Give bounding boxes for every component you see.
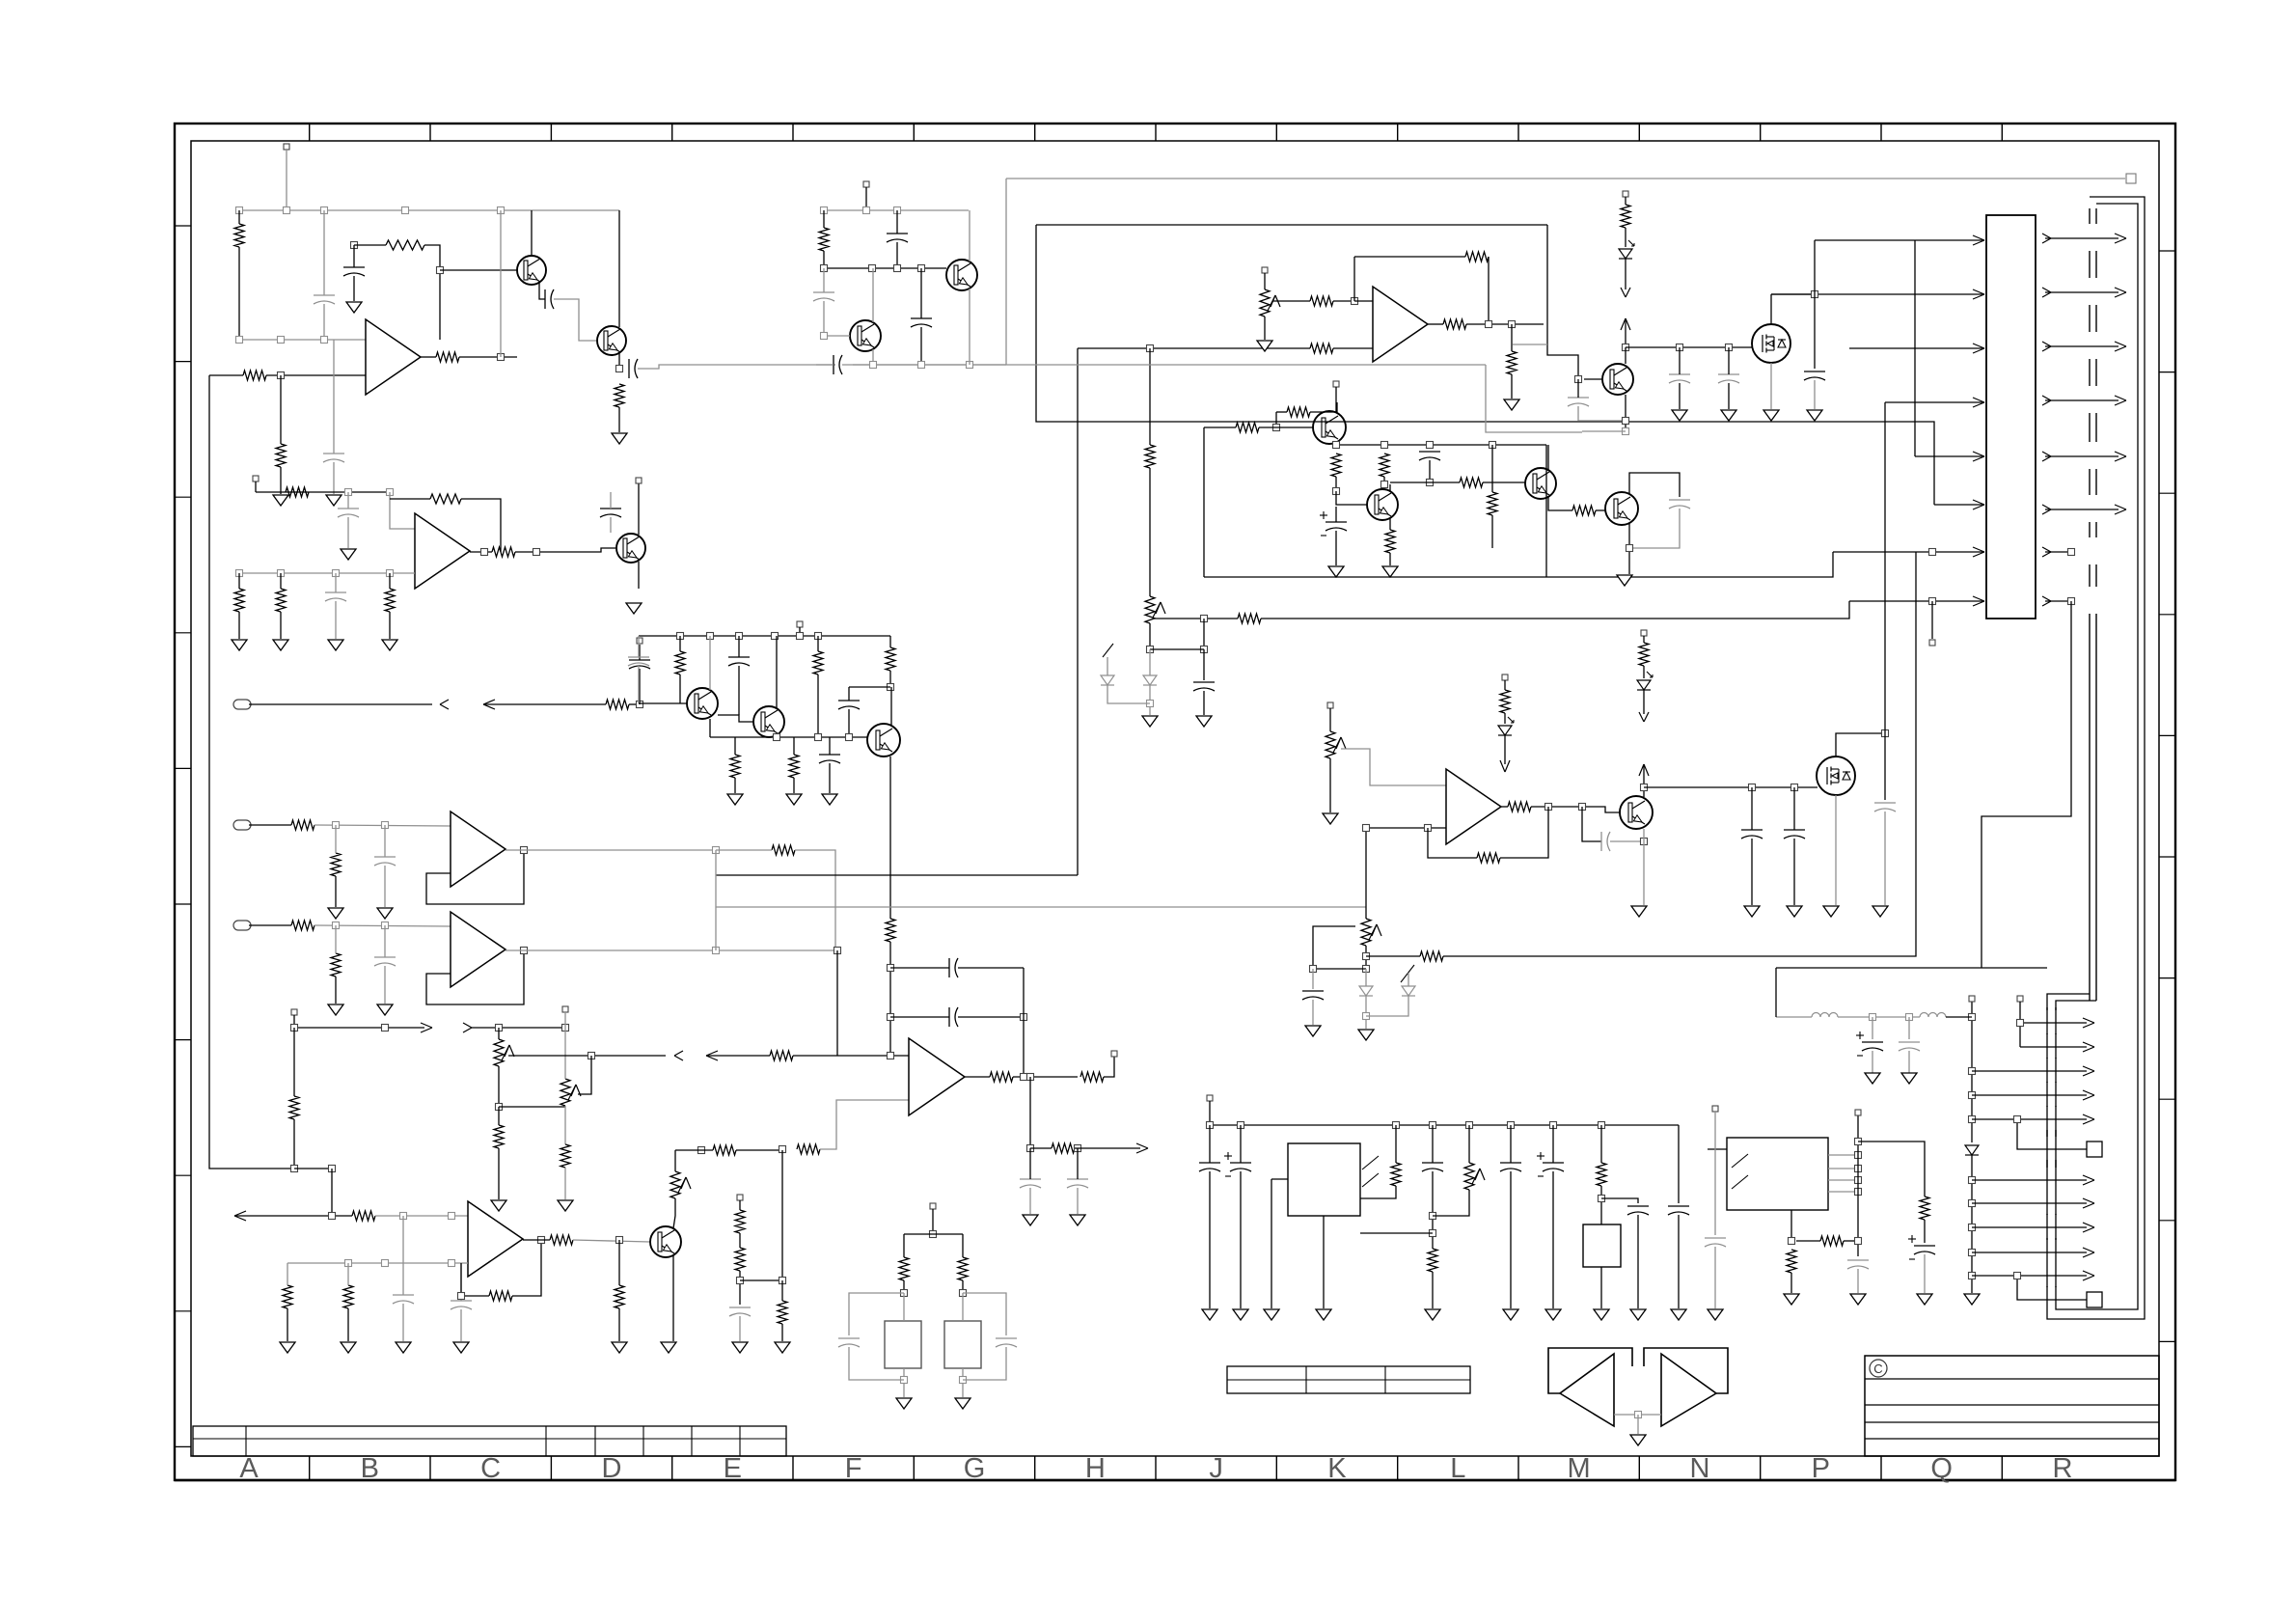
- wire c16 gnd: [460, 1309, 462, 1341]
- potentiometer P6: [1464, 1163, 1474, 1190]
- junction r63: [1599, 1196, 1605, 1202]
- bus shield ring inner: [2056, 204, 2138, 1309]
- wire c24 gnd: [1029, 1188, 1031, 1214]
- wire m2 source: [1835, 795, 1837, 905]
- resistor R53: [1310, 296, 1333, 306]
- svg-text:A: A: [239, 1453, 259, 1484]
- wire u6 out: [965, 1076, 990, 1078]
- wire row2 from mosfet1 drain node: [1771, 293, 1984, 295]
- junction y1211 b: [329, 1166, 336, 1172]
- junction U4 right: [1855, 1238, 1862, 1245]
- wire row3 feed: [1849, 347, 1984, 349]
- potentiometer P8: [1361, 919, 1371, 946]
- terminal top supply: [2126, 174, 2136, 183]
- wire Q2 emitter: [618, 352, 620, 369]
- wire u6 arrow: [1075, 1147, 1140, 1149]
- wire c2b dn: [323, 304, 325, 340]
- wire R5 gnd: [280, 467, 282, 494]
- left border tick 8: [175, 1174, 191, 1176]
- wire r21 gnd: [498, 1148, 500, 1199]
- svg-text:F: F: [845, 1453, 862, 1484]
- wire Q5 coll: [638, 481, 640, 535]
- wire c21 gnd: [829, 763, 831, 793]
- wire C1 gnd: [353, 276, 355, 301]
- output arrow y=1272: [1972, 1226, 2087, 1228]
- potentiometer P4: [1260, 289, 1270, 316]
- wire p2 dn: [564, 1106, 566, 1144]
- junction low a: [870, 362, 877, 369]
- wire u7 out: [1428, 323, 1443, 325]
- junction cl4 c: [1427, 442, 1434, 449]
- wire c38 up: [1240, 1125, 1242, 1163]
- capacitor C17: [729, 1307, 751, 1308]
- junction c39 a: [1430, 1213, 1436, 1220]
- ground U4: [1850, 1294, 1866, 1305]
- left border tick 4: [175, 632, 191, 634]
- terminal V+ q15: [1641, 630, 1647, 636]
- wire u8 fb2: [1428, 828, 1477, 858]
- letters row bottom line: [175, 1479, 2175, 1481]
- junction y1 out: [901, 1377, 908, 1384]
- resistor R18: [772, 845, 795, 855]
- wire u8 out2: [1531, 807, 1621, 812]
- resistor R38: [730, 755, 740, 778]
- ground C29: [1672, 410, 1687, 421]
- junction q10 b2: [1273, 425, 1280, 431]
- wire c20 up: [849, 686, 890, 688]
- bottom border tick 2: [429, 1456, 431, 1480]
- diode D6: [1143, 675, 1157, 685]
- connector output arrow y=303: [2042, 288, 2051, 292]
- wire cap lead: [1872, 1017, 1873, 1039]
- resistor R4 input: [243, 371, 266, 380]
- junction y816 a: [1641, 784, 1648, 791]
- resistor R9: [286, 487, 309, 497]
- connector output arrow y=359: [2042, 342, 2051, 346]
- wire pm stub: [1209, 1101, 1211, 1125]
- wire C10 up: [335, 573, 337, 592]
- wire q15 chain a: [1643, 636, 1645, 643]
- ground R62: [1425, 1309, 1440, 1320]
- junction pm f: [1508, 1122, 1515, 1129]
- wire r62 gnd: [1432, 1272, 1434, 1308]
- ground U10: [1594, 1309, 1609, 1320]
- wire Q1 emitter: [539, 282, 545, 299]
- wire c24 up: [1029, 1148, 1031, 1179]
- diode D3 led: [1498, 726, 1512, 735]
- bus cable crossing mark lower: [2046, 1033, 2048, 1034]
- bus cable crossing mark lower: [2046, 1238, 2048, 1240]
- right border tick 10: [2159, 1340, 2175, 1342]
- junction u6 a: [1021, 1074, 1027, 1081]
- wire x1192 mid: [1149, 468, 1151, 596]
- ground U9 bottom: [1316, 1309, 1331, 1320]
- op-amp U4b: [451, 912, 506, 987]
- ground C14: [377, 1004, 393, 1015]
- resistor R50: [1460, 478, 1483, 487]
- junction q15 em: [1641, 839, 1648, 845]
- wire x1248 cap: [1203, 649, 1205, 680]
- junction amp1 rail c: [321, 207, 328, 214]
- junction c39 b: [1430, 1230, 1436, 1237]
- wire q14 base: [1584, 378, 1602, 380]
- wire in1 return: [483, 703, 606, 705]
- wire c29 gnd: [1679, 383, 1681, 409]
- wire tap return2: [793, 1055, 837, 1057]
- capacitor C16: [451, 1300, 472, 1302]
- ground C38: [1233, 1309, 1248, 1320]
- wire inv path: [820, 1100, 909, 1149]
- wire p4 stub: [1264, 273, 1266, 289]
- wire c16 up: [460, 1263, 462, 1301]
- resistor R40: [886, 919, 895, 942]
- plug square 2: [2087, 1292, 2102, 1307]
- wire u6 dn: [1029, 1077, 1031, 1148]
- wire c48 gnd: [1203, 691, 1205, 715]
- bus cable crossing mark: [2089, 305, 2091, 332]
- wire t3: [739, 1200, 741, 1210]
- resistor R57: [1621, 205, 1630, 228]
- wire q10 base2: [1259, 426, 1314, 428]
- junction amp1 rail d: [402, 207, 409, 214]
- diode D7 slash: [1103, 644, 1113, 657]
- wire y361 line: [1078, 347, 1310, 349]
- junction cl2 a: [821, 207, 828, 214]
- junction bus y=572: [2068, 549, 2075, 556]
- wire p3 link: [675, 1149, 713, 1151]
- wire x1416 mid: [1365, 946, 1367, 969]
- wire q6 em: [672, 1255, 674, 1341]
- wire fb2 left: [390, 498, 430, 500]
- ground C2: [326, 495, 342, 506]
- wire c19 dn: [738, 666, 740, 715]
- wire m1 drain: [1770, 294, 1772, 324]
- junction a2 a: [236, 570, 243, 577]
- wire p3 tap: [674, 1150, 676, 1171]
- wire u8 inm: [1366, 827, 1446, 829]
- junction fb1: [351, 242, 358, 249]
- capacitor C37: [1199, 1162, 1220, 1164]
- top border tick 14: [1880, 124, 1882, 141]
- wire R1 to rail2: [238, 247, 240, 340]
- bus cable crossing mark: [2089, 208, 2091, 224]
- resistor R47: [1331, 454, 1341, 477]
- junction cl2 f: [894, 265, 901, 272]
- output arrow y=1060: [2020, 1022, 2087, 1024]
- capacitor C filter1 polarized: [1862, 1041, 1883, 1043]
- right border tick 7: [2159, 977, 2175, 979]
- junction u5 a: [345, 1260, 352, 1267]
- wire arrows rail: [294, 1027, 424, 1029]
- junction u8 out2: [1579, 804, 1586, 811]
- arrow return in1: [483, 700, 495, 704]
- capacitor C U4: [1847, 1259, 1869, 1261]
- wire u6 d: [1030, 1147, 1052, 1149]
- junction c3 e: [797, 633, 804, 640]
- potentiometer P7: [1145, 596, 1155, 623]
- wire t1 stub: [293, 1015, 295, 1028]
- transistor Q5: [616, 534, 645, 563]
- wire q11 em: [1389, 518, 1391, 530]
- junction filter a: [1870, 1014, 1876, 1021]
- junction u7 out: [1486, 321, 1492, 328]
- wire u9 left pin: [1271, 1178, 1288, 1180]
- ground U9 left: [1264, 1309, 1279, 1320]
- wire p2 link: [499, 1106, 565, 1108]
- wire r29 gnd: [618, 1308, 620, 1341]
- junction x923 c: [888, 1053, 894, 1059]
- ground M1: [1763, 410, 1779, 421]
- inductor L1: [1812, 1013, 1838, 1018]
- junction m1 d2: [1812, 291, 1818, 298]
- ground R26: [341, 1342, 356, 1353]
- resistor R69: [1639, 643, 1649, 666]
- wire Q4 base: [824, 335, 850, 337]
- ground C15: [396, 1342, 411, 1353]
- wire fb right: [424, 245, 440, 340]
- resistor R56: [1507, 351, 1517, 374]
- capacitor C11: [600, 508, 621, 509]
- input terminal IN3: [233, 921, 251, 930]
- wire in3: [249, 924, 291, 926]
- wire r22 gnd: [564, 1168, 566, 1199]
- junction U4b out: [521, 948, 528, 954]
- wire q7 base: [639, 702, 687, 704]
- wire signal run D2: [1261, 601, 1849, 619]
- bottom border tick 15: [2001, 1456, 2003, 1480]
- wire q14 chain mid: [1625, 228, 1626, 247]
- ground R49: [1382, 566, 1398, 577]
- ground R25: [280, 1342, 295, 1353]
- diode D5 slash: [1401, 965, 1414, 982]
- wire c21 up: [829, 737, 831, 755]
- junction cl4 a: [1333, 442, 1340, 449]
- ground C1: [346, 302, 362, 313]
- wire r31 mid: [739, 1233, 741, 1248]
- junction run881: [713, 847, 720, 854]
- bottom border tick 10: [1397, 1456, 1399, 1480]
- wire arrow into connector at y=572: [1973, 547, 1984, 552]
- resistor R55: [1443, 319, 1466, 329]
- wire branch to plug2: [2017, 1276, 2087, 1300]
- top border tick 6: [913, 124, 915, 141]
- wire c41 up: [1552, 1125, 1554, 1163]
- wire y673 link: [1150, 648, 1204, 650]
- wire U4 cap gnd: [1857, 1269, 1859, 1293]
- wire x1881 dn: [1814, 294, 1816, 369]
- resistor R44: [1287, 407, 1310, 417]
- transistor Q11: [1367, 489, 1398, 520]
- wire c44 gnd: [1714, 1247, 1716, 1308]
- wire U4b out run: [506, 949, 837, 951]
- ground C25: [1070, 1215, 1085, 1225]
- capacitor C U4 bias polarized: [1914, 1245, 1935, 1247]
- junction pm e: [1466, 1122, 1473, 1129]
- wire supply mid: [1838, 1016, 1920, 1018]
- wire base tc: [440, 269, 517, 271]
- crystal Y1: [885, 1321, 921, 1368]
- wire r26 gnd: [347, 1308, 349, 1341]
- ground C30: [1721, 410, 1736, 421]
- wire y1211: [294, 1168, 332, 1169]
- ground R29: [612, 1342, 627, 1353]
- wire x1604 drop: [1547, 225, 1578, 379]
- junction y1260 a: [329, 1213, 336, 1220]
- op-amp U1: [366, 319, 421, 395]
- terminal T3: [737, 1195, 743, 1200]
- wire C6 dn: [823, 301, 825, 336]
- ground C9: [341, 549, 356, 560]
- svg-text:D: D: [602, 1453, 622, 1484]
- revision table bottom-left: [193, 1426, 786, 1456]
- wire r38 link: [734, 737, 736, 755]
- wire y361 line b: [1333, 347, 1373, 349]
- ground Q13: [1617, 575, 1632, 586]
- wire c30 up: [1728, 347, 1730, 374]
- arrow led2: [1500, 760, 1505, 772]
- capacitor C31: [1568, 397, 1589, 399]
- capacitor C19: [728, 656, 750, 658]
- terminal U4 rail: [1855, 1110, 1861, 1115]
- junction q9 c: [846, 734, 853, 741]
- wire x868 drop: [836, 950, 838, 1056]
- wire gray y447: [1582, 430, 1626, 432]
- wire u7 fb2: [1488, 257, 1490, 324]
- wire arrow into connector at y=523: [1973, 500, 1984, 505]
- crystal Y2: [944, 1321, 981, 1368]
- left border tick 3: [175, 496, 191, 498]
- wire R1 down: [238, 210, 240, 224]
- wire Q3 emitter dn: [969, 289, 970, 365]
- resistor R10: [430, 494, 461, 504]
- junction cl2 d: [821, 265, 828, 272]
- junction u6 c: [1027, 1145, 1034, 1152]
- junction a2 b: [278, 570, 285, 577]
- resistor R62: [1428, 1249, 1437, 1272]
- wire q15 chain d: [1643, 764, 1645, 787]
- junction ar d: [562, 1025, 569, 1032]
- wire r33 up: [781, 1280, 783, 1301]
- wire r47 dn: [1335, 477, 1337, 491]
- wire p1 up: [498, 1028, 500, 1039]
- wire c47 gnd: [1312, 1000, 1314, 1025]
- junction bus y=623: [2068, 598, 2075, 605]
- wire x305 col: [293, 1028, 295, 1096]
- wire c30 gnd: [1728, 383, 1730, 409]
- right border tick 6: [2159, 856, 2175, 858]
- capacitor C40: [1500, 1162, 1521, 1164]
- wire x1954: [1884, 402, 1886, 733]
- transistor Q6: [650, 1226, 681, 1257]
- wire C12 dn: [639, 669, 641, 704]
- wire c39 up: [1432, 1125, 1434, 1163]
- junction in3 a: [333, 922, 340, 929]
- wire c37 gnd: [1209, 1171, 1211, 1308]
- wire q15 chain c: [1643, 690, 1645, 714]
- resistor R20: [331, 953, 341, 977]
- wire Q4 emitter dn: [872, 349, 874, 365]
- capacitor C46: [996, 1337, 1017, 1339]
- junction bus y=1322: [1969, 1273, 1976, 1279]
- wire in1 line: [249, 703, 432, 705]
- wire supply horizontal: [1776, 967, 2047, 969]
- resistor R11: [234, 589, 244, 612]
- chevron tap: [674, 1051, 683, 1056]
- wire r32 dn: [739, 1271, 741, 1305]
- wire R17 gnd: [335, 876, 337, 907]
- wire U3 fb: [426, 850, 524, 904]
- ground R5: [273, 495, 288, 506]
- wire q10 coll: [1336, 402, 1338, 413]
- wire p6 up: [1468, 1125, 1470, 1163]
- junction U5 out: [538, 1237, 545, 1244]
- arrow right t1: [421, 1023, 432, 1028]
- wire c3 stub: [799, 627, 801, 636]
- wire r23 dn: [293, 1119, 295, 1169]
- top border tick 13: [1760, 124, 1762, 141]
- junction low b: [918, 362, 925, 369]
- capacitor C30: [1718, 373, 1739, 375]
- ground R20: [328, 1004, 343, 1015]
- junction ar a: [291, 1025, 298, 1032]
- wire u9 left dn: [1271, 1179, 1272, 1308]
- bus shield ring outer: [2047, 197, 2145, 1319]
- capacitor C8: [833, 355, 834, 374]
- junction u8 inm2: [1363, 825, 1370, 832]
- junction q4 base: [821, 333, 828, 340]
- diode D bus: [1965, 1145, 1979, 1155]
- title block bottom-right: [1865, 1356, 2159, 1456]
- wire cap gnd b: [1908, 1051, 1910, 1073]
- junction y816 b: [1749, 784, 1756, 791]
- wire d5 down: [1366, 996, 1408, 1016]
- wire c23 r: [958, 1016, 1024, 1018]
- wire x1323: [1275, 412, 1277, 427]
- resistor R32: [735, 1248, 745, 1271]
- diode D8 led: [1637, 680, 1651, 690]
- wire xtal stub: [932, 1209, 934, 1234]
- wire c15 gnd: [402, 1304, 404, 1341]
- wire d6 lead: [1149, 649, 1151, 675]
- wire U3 out run: [506, 849, 716, 851]
- bus cable crossing mark lower: [2046, 1286, 2048, 1287]
- svg-text:N: N: [1689, 1453, 1709, 1484]
- capacitor C1: [343, 266, 365, 268]
- junction amp2 a: [345, 489, 352, 496]
- wire C8 left: [816, 364, 834, 366]
- wire p3 dn: [673, 1198, 675, 1228]
- wire r36 up: [817, 636, 819, 651]
- junction q11 c: [1381, 481, 1388, 488]
- junction in2 a: [333, 822, 340, 829]
- capacitor C23: [948, 1007, 950, 1027]
- capacitor C12: [629, 659, 650, 661]
- wire p8 cap lead: [1312, 969, 1314, 989]
- resistor R39: [789, 755, 799, 778]
- wire mosfet1 drain to connector row1: [1815, 239, 1984, 241]
- junction x1192 low: [1147, 646, 1154, 653]
- top border tick 1: [309, 124, 311, 141]
- wire p1 dn: [498, 1066, 500, 1107]
- bus cable crossing mark lower: [2046, 1058, 2048, 1059]
- junction amp1 rail a: [236, 207, 243, 214]
- wire C10 gnd: [335, 601, 337, 639]
- junction q9 b: [815, 734, 822, 741]
- wire cl2 rail: [824, 209, 969, 211]
- capacitor C3: [544, 289, 546, 309]
- wire U4 pin 3: [1828, 1179, 1858, 1181]
- resistor R52: [1488, 492, 1497, 515]
